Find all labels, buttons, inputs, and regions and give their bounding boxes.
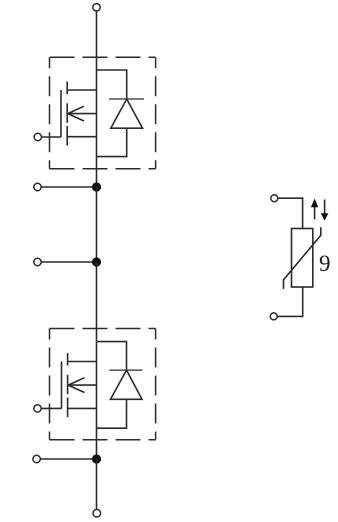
- wire: main bus node 3 to bottom terminal: [96, 459, 98, 509]
- terminal: top drain connection: [93, 4, 100, 11]
- wire: node 3 lead (source of T2 / auxiliary): [40, 458, 96, 460]
- thermistor R1 characteristic stroke: [284, 227, 321, 289]
- MOSFET module T2 dashed boundary: [50, 329, 156, 440]
- arrow: resistance down: [321, 200, 329, 221]
- transistor T2 (N-channel MOSFET): [62, 353, 97, 417]
- junction: node 2: [92, 257, 101, 266]
- terminal: node 2: [34, 258, 41, 265]
- transistor T1 (N-channel MOSFET): [61, 82, 97, 146]
- terminal: node 3: [33, 455, 40, 462]
- wire: main bus node 1 to node 2: [96, 187, 98, 262]
- terminal: thermistor top: [271, 195, 278, 202]
- junction: node 1: [92, 182, 101, 191]
- wire: main bus node 2 through lower module to node 3: [96, 262, 98, 459]
- wire: thermistor bottom lead: [277, 287, 302, 316]
- terminal: gate G2: [34, 405, 41, 412]
- MOSFET module T1 dashed boundary: [50, 57, 156, 169]
- wire: gate G1 lead: [42, 136, 62, 138]
- junction: node 3: [92, 454, 101, 463]
- svg-text:9: 9: [319, 251, 331, 276]
- diode D1 (freewheeling): [97, 70, 145, 157]
- terminal: thermistor bottom: [270, 313, 277, 320]
- terminal: node 1: [34, 183, 41, 190]
- terminal: gate G1: [34, 133, 41, 140]
- thermistor R1 (NTC) body: [292, 229, 313, 288]
- wire: gate G2 lead: [41, 407, 61, 409]
- diode D2 (freewheeling): [97, 342, 143, 429]
- wire: thermistor top lead: [278, 198, 303, 228]
- wire: node 2 lead (midpoint tap): [41, 261, 96, 263]
- wire: main bus from top terminal through upper module to node 1: [96, 11, 98, 187]
- arrow: temperature up: [311, 199, 318, 220]
- wire: node 1 lead (source of T1 / auxiliary): [41, 186, 96, 188]
- label: temperature symbol theta: [319, 251, 331, 276]
- terminal: bottom source connection: [93, 509, 101, 517]
